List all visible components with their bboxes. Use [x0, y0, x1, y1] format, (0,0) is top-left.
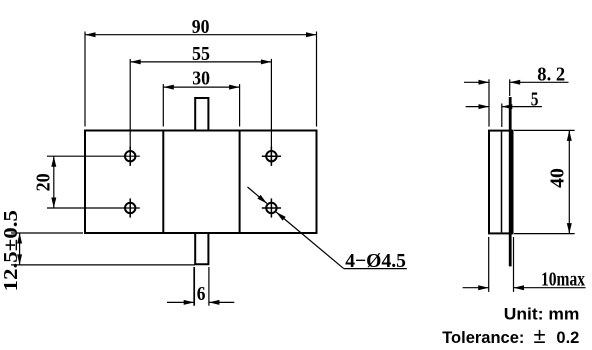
svg-text:8. 2: 8. 2	[537, 63, 565, 85]
svg-text:40: 40	[546, 168, 568, 188]
svg-text:±: ±	[534, 323, 546, 348]
svg-text:Unit: mm: Unit: mm	[504, 305, 580, 323]
svg-text:90: 90	[192, 16, 210, 38]
svg-text:0.2: 0.2	[556, 329, 579, 347]
svg-text:4−Ø4.5: 4−Ø4.5	[345, 250, 406, 272]
svg-text:12.5±0.5: 12.5±0.5	[0, 210, 22, 292]
svg-text:5: 5	[531, 89, 539, 111]
svg-text:10max: 10max	[541, 269, 585, 291]
svg-text:55: 55	[192, 43, 210, 65]
svg-text:Tolerance:: Tolerance:	[442, 329, 524, 347]
svg-text:6: 6	[197, 283, 206, 305]
svg-text:20: 20	[33, 173, 55, 191]
svg-text:30: 30	[192, 68, 210, 90]
